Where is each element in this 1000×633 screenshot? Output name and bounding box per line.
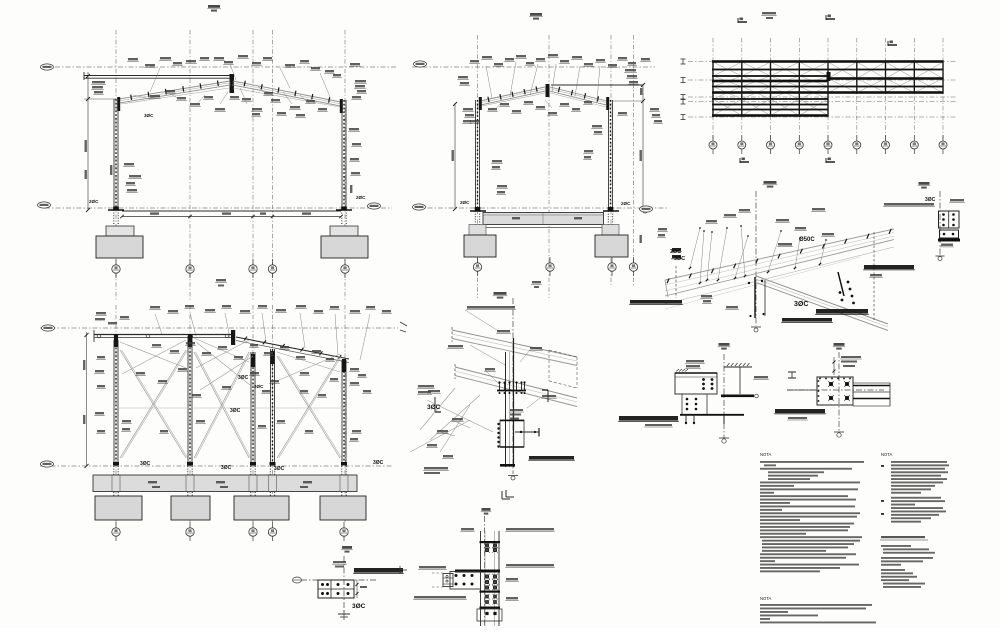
elevation roof zone labels [152, 344, 161, 346]
elevation grid line 5 [344, 305, 346, 522]
splice left bracket [450, 572, 481, 590]
elevation grid line 2 [189, 305, 191, 522]
roof plan section marker top 2 [826, 18, 835, 20]
svg-text:2ØC: 2ØC [89, 199, 99, 204]
detail 3-3 anchor bolts bottom [685, 414, 687, 424]
detail 1 purlin ticks upper chord [667, 278, 669, 283]
detail 3-3 floor line [680, 414, 744, 416]
detail 2 top label row [467, 306, 515, 309]
right footing A-A [321, 236, 368, 258]
roof plan grid lines [712, 38, 714, 140]
elevation wall X bracing bay 1-2 [120, 350, 186, 458]
detail 3-3 right ledge [724, 366, 752, 368]
level marker left A-A [41, 64, 54, 70]
right dimension line B-B [642, 85, 644, 211]
floor slab beam B-B [483, 213, 604, 225]
elevation grid line 1 [115, 305, 117, 522]
leader lines roof A-A [133, 95, 150, 99]
detail D-D centerline [939, 191, 941, 256]
right column labels A-A [349, 128, 359, 130]
elevation grid line 4 [272, 305, 274, 522]
grid line 4 section A-A [272, 30, 274, 300]
splice top bolts [480, 541, 501, 543]
detail 4-4 small dots left col [818, 380, 820, 382]
svg-text:2ØC: 2ØC [621, 201, 631, 206]
detail 2 section mark right [547, 390, 549, 402]
detail 3-3 beam box [675, 373, 717, 394]
detail D-D left long label [884, 203, 934, 206]
detail 2 lower stub bar [500, 464, 515, 467]
beam underline B-B [483, 227, 604, 229]
detail 3-3 labels top [686, 360, 704, 362]
elevation right roof ticks [244, 337, 247, 341]
detail D-D plate upper [939, 211, 960, 228]
leader lines roof B-B [486, 66, 492, 98]
elevation column bases [113, 462, 119, 465]
detail 4-4 I beam symbol left [788, 371, 796, 373]
detail 1 lower-left labels [701, 295, 712, 297]
detail 2 bold label right [529, 456, 574, 459]
svg-text:3ØC: 3ØC [352, 603, 366, 610]
detail 1 left cut break lines [675, 266, 677, 298]
level marker ground left B-B [413, 204, 426, 210]
detail 3-3 hatch corner [676, 369, 679, 372]
roof plan horizontal grid lines [688, 61, 957, 63]
splice bottom box [477, 609, 502, 621]
labels under rafters A-A [150, 95, 160, 97]
svg-text:3ØC: 3ØC [230, 408, 241, 414]
right pedestal B-B [602, 225, 619, 236]
elevation ground line [40, 465, 392, 467]
detail D-D base bar [938, 239, 960, 242]
elevation column 1 [113, 340, 115, 466]
detail 3-3 centerline [723, 354, 725, 438]
apex connection A-A [230, 74, 235, 93]
right column base B-B [608, 207, 614, 211]
notes materials header [881, 536, 925, 538]
detail 4-4 title [834, 343, 845, 346]
left column base A-A [113, 207, 119, 210]
notes left block text lines [760, 461, 864, 463]
left pedestal A-A [106, 226, 134, 236]
detail D-D bottom label [941, 244, 953, 246]
detail 4-4 main plate [817, 377, 853, 405]
detail 2 leader lines [470, 345, 505, 365]
svg-text:3ØC: 3ØC [427, 404, 441, 411]
notes materials lines [881, 545, 911, 547]
roof plan right block bracing [828, 62, 857, 79]
roof plan section marker bottom 1 [740, 161, 749, 163]
detail 2 centerline [512, 298, 514, 474]
apex dim extension line B-B [551, 84, 643, 86]
detail 1 right side label [864, 265, 914, 269]
svg-text:3ØC: 3ØC [373, 460, 384, 466]
splice band 3 [480, 607, 501, 609]
scale note under A-A [216, 279, 226, 281]
level marker left B-B [414, 61, 427, 67]
elevation column 3 [250, 352, 252, 466]
svg-text:3ØC: 3ØC [274, 466, 285, 472]
rafter bottom flange B-B [482, 93, 545, 106]
detail 2 tie rod [515, 431, 539, 433]
datum level line +eaves elevation A-A [55, 66, 396, 68]
right rafter B-B [550, 87, 607, 101]
svg-text:3ØC: 3ØC [674, 256, 685, 262]
anchor plan left grid marker [293, 577, 302, 583]
svg-text:NOTA: NOTA [760, 452, 772, 457]
elevation grid bubbles [115, 522, 117, 541]
roof plan section marker bottom 2 [826, 161, 835, 163]
detail 3-3 beam bolts [702, 378, 705, 381]
elevation datum line [40, 327, 398, 329]
anchor plan bolts [321, 583, 324, 586]
detail 3-3 heavy bottom bar [619, 416, 678, 421]
elevation apex plate [231, 330, 235, 345]
right rafter A-A [233, 81, 341, 102]
right column labels B-B [592, 125, 602, 127]
rafter bottom flange left A-A [121, 88, 229, 104]
detail 3-3 right label [754, 376, 768, 378]
right footing B-B [595, 235, 628, 257]
elevation eaves beam [94, 334, 231, 336]
svg-text:3ØC: 3ØC [221, 465, 232, 471]
anchor plan bottom datum symbol [338, 613, 350, 615]
detail 4-4 plate bolts [829, 382, 833, 386]
detail 3-3 bottom symbol [722, 439, 726, 443]
detail 4-4 bottom symbol [837, 433, 841, 437]
labels right of frame A-A [355, 80, 366, 82]
anchor plan heavy label bar [354, 568, 403, 573]
detail 3-3 right band [721, 395, 754, 398]
splice centerline [484, 516, 486, 626]
elevation column 2 [187, 336, 189, 466]
detail 1 right bolt cluster [838, 272, 844, 296]
detail 1 title [764, 181, 777, 184]
svg-text:NOTA: NOTA [760, 596, 772, 601]
detail 1 left heavy label row [630, 300, 682, 304]
elevation column 5 [341, 360, 343, 466]
elevation roof plane braces [120, 342, 186, 368]
detail 2 flange bolts [497, 423, 499, 425]
grid line 3 section B-B [610, 35, 612, 285]
elevation leader lines top [155, 314, 162, 334]
far right bold note B-B [672, 248, 681, 251]
roof plan title small [762, 12, 776, 14]
grid line 1 section B-B [477, 35, 479, 298]
detail 2 labels [497, 330, 510, 332]
splice title [482, 508, 491, 511]
splice corner mark [505, 490, 507, 497]
detail 1 lower parallel rod [665, 247, 894, 304]
detail 2 corner bracket bottom right [501, 491, 503, 499]
grid line 4 section B-B [633, 35, 635, 285]
detail 4-4 centerline vertical [838, 352, 840, 432]
splice dashed leader left [432, 572, 443, 574]
roof plan grid bubbles [712, 135, 714, 154]
detail 1 main rafter band [665, 229, 894, 280]
detail 4-4 small dots top row [819, 378, 821, 380]
left footing A-A [96, 236, 143, 258]
elevation dim labels between footings [152, 486, 160, 488]
detail D-D plate lower [940, 230, 959, 238]
detail 4-4 centerline horizontal [787, 389, 884, 391]
elevation foundation beam [93, 475, 357, 492]
detail 1 right rafter band [756, 276, 888, 324]
grid line 2 section A-A [189, 30, 191, 300]
detail 2 bottom symbol [511, 476, 515, 480]
detail 4-4 top dim ticks [833, 357, 835, 375]
right column A-A [341, 100, 343, 210]
roof plan section marker mid C [888, 44, 897, 46]
elevation footing 2 [171, 496, 210, 520]
detail 2 lower band cut left [454, 364, 456, 379]
detail 2 upper band cut right dashed box [549, 350, 577, 357]
svg-text:2ØC: 2ØC [356, 195, 366, 200]
detail 1 right cut line dashed [873, 232, 875, 322]
splice mid plate [455, 570, 500, 573]
detail D-D title [919, 182, 930, 185]
right column B-B [608, 100, 610, 209]
detail 1 heavy bottom note [816, 309, 868, 314]
left footing B-B [464, 235, 496, 257]
left dimension line B-B [454, 103, 456, 209]
detail 2 splice plate with bolts [497, 390, 526, 392]
elevation column top connection bars [114, 334, 118, 347]
elevation left dim line [86, 332, 88, 466]
splice left edge tick [400, 569, 407, 571]
detail D-D right small label [950, 199, 964, 201]
labels right of B-B [625, 69, 636, 71]
roof plan left block verticals [712, 60, 714, 116]
labels under rafters B-B [488, 108, 497, 110]
section title B-B [530, 13, 542, 16]
splice column outline [480, 531, 482, 626]
detail 1 centerline [755, 191, 757, 326]
svg-text:3ØC: 3ØC [925, 197, 936, 203]
svg-text:3ØC: 3ØC [144, 113, 154, 118]
apex connection B-B [546, 84, 550, 97]
left column A-A [113, 99, 115, 210]
floor tie beam A-A [122, 210, 341, 212]
elevation column 4 [270, 349, 272, 466]
left column B-B [475, 100, 477, 209]
detail 2 column [505, 352, 507, 467]
svg-text:3ØC: 3ØC [140, 461, 151, 467]
scale note under B-B [532, 281, 541, 283]
detail 2 section mark left [434, 397, 436, 412]
detail D-D bottom symbol [938, 257, 942, 261]
elevation wall X bracing bay 4-5 [277, 356, 340, 458]
detail 2 upper band cut left [451, 327, 453, 342]
detail 3-3 title [719, 343, 730, 346]
elevation grid line 3 [252, 305, 254, 522]
roof annotation labels A-A [92, 81, 105, 83]
roof plan left edge level marks [682, 59, 684, 64]
left column base B-B [475, 207, 481, 211]
detail 4-4 top labels [841, 356, 861, 358]
detail 2 brace lines lower left [427, 400, 493, 432]
grid line 2 section B-B [548, 35, 550, 298]
elevation top annotation labels [150, 306, 160, 308]
detail 2 left edge arrows [400, 322, 407, 326]
anchor plan centerline vertical [343, 556, 345, 612]
detail 2 lower connection box [500, 420, 524, 447]
roof plan junction plate [827, 72, 831, 81]
level marker ground right A-A [368, 203, 381, 209]
detail 1 diagonal hanger struts [700, 231, 704, 283]
detail 2 lower rafter band [455, 367, 577, 398]
left pedestal B-B [469, 225, 486, 236]
detail 2 upper rafter band [452, 330, 577, 357]
detail 1 oval label [778, 243, 792, 246]
right pedestal A-A [330, 226, 358, 236]
detail 1 ridge post [754, 277, 756, 318]
elevation footing 3 [234, 496, 289, 520]
elevation level marker ground [41, 461, 54, 467]
roof plan right block verticals [856, 60, 858, 93]
svg-text:2ØC: 2ØC [254, 384, 264, 389]
left rafter A-A [119, 81, 230, 99]
anchor plan oval label [333, 561, 346, 563]
detail 3-3 under box [682, 394, 707, 415]
eaves strut A-A [84, 75, 233, 77]
left rafter B-B [480, 87, 545, 101]
splice band 2 [480, 591, 501, 593]
right column base A-A [341, 207, 347, 210]
anchor plan right dim ticks [356, 580, 358, 598]
anchor plan title [342, 546, 352, 549]
level marker ground left A-A [38, 202, 51, 208]
anchor plan base plate [318, 580, 354, 598]
ground line A-A [45, 207, 392, 209]
level marker ground right B-B [640, 206, 653, 212]
elevation footing 4 [320, 496, 366, 520]
splice mid bolts [485, 575, 489, 579]
datum level line B-B [412, 66, 655, 68]
detail 1 top labels [706, 220, 717, 222]
splice labels [419, 566, 446, 568]
elevation wall X bracing bay 2-3 [194, 352, 249, 458]
grid line 3 section A-A [252, 30, 254, 300]
detail 2 title [494, 292, 507, 295]
elevation beam bolt circles [97, 334, 101, 338]
detail 4-4 right box [853, 383, 890, 406]
grid bubbles B-B [477, 257, 479, 276]
elevation mid rail [116, 407, 344, 409]
roof plan left block purlins [712, 60, 828, 63]
grid line 1 section A-A [115, 30, 117, 300]
left column labels B-B [458, 76, 468, 78]
svg-text:Ø50C: Ø50C [799, 237, 815, 243]
elevation column labels [97, 356, 105, 358]
svg-text:3ØC: 3ØC [670, 249, 681, 255]
svg-text:3ØC: 3ØC [238, 375, 249, 381]
detail 1 bottom datum symbol [754, 328, 758, 332]
left dimension line A-A [87, 72, 89, 210]
dimension text floor A-A [150, 212, 159, 214]
detail 1 heavy underlined row [782, 318, 832, 322]
svg-text:NOTA: NOTA [881, 452, 893, 457]
grid bubbles A-A [115, 259, 117, 278]
roof plan section marker top 1 [738, 21, 747, 23]
ground line B-B [417, 207, 667, 209]
svg-text:3ØC: 3ØC [794, 301, 808, 308]
elevation level marker left top [42, 325, 55, 331]
detail 4-4 heavy bottom bar [775, 409, 825, 413]
section title A-A [208, 5, 220, 8]
grid line 5 section A-A [344, 30, 346, 300]
elevation footing 1 [95, 496, 142, 520]
roof labels B-B [470, 60, 479, 62]
svg-text:2ØC: 2ØC [460, 200, 470, 205]
splice left small piece [443, 574, 453, 587]
roof plan right block purlins [828, 60, 944, 63]
roof plan left block bracing [713, 62, 742, 76]
splice lower bolts [485, 595, 489, 599]
elevation right roof edge [236, 337, 349, 359]
anchor plan centerline horizontal [301, 579, 376, 581]
left column labels A-A [124, 163, 134, 165]
